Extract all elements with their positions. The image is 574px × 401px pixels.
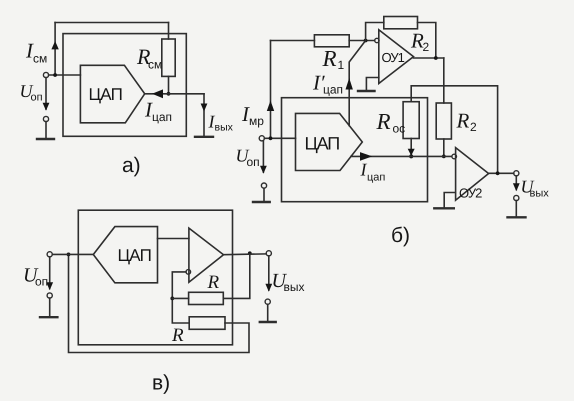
terminal Uоп B: [259, 136, 264, 141]
wire Roc bottom lead: [410, 139, 412, 157]
svg-text:см: см: [148, 58, 162, 72]
wire Uоп down V: [49, 257, 51, 289]
arrow Iмр up: [267, 101, 274, 112]
wire R1 to opamp: [349, 40, 375, 42]
ground Uоп V: [40, 316, 57, 318]
svg-text:оп: оп: [247, 155, 260, 169]
input circle OU1: [375, 38, 379, 42]
svg-text:R: R: [171, 325, 184, 346]
op-amp OU1: [379, 30, 414, 84]
wire Uвых down B: [515, 176, 517, 190]
terminal circle lower V: [47, 293, 52, 298]
wire dac to opamp V: [158, 238, 189, 240]
terminal Uоп A: [43, 72, 48, 77]
ground A: [37, 138, 54, 140]
svg-text:R: R: [207, 272, 220, 293]
resistor R2 top: [384, 17, 418, 29]
svg-text:ЦАП: ЦАП: [118, 246, 152, 265]
wire to ground A: [45, 122, 47, 139]
arrow Iсм up: [51, 41, 58, 49]
junction v2: [248, 251, 252, 255]
ground Iвых: [195, 136, 213, 138]
wire R top to output: [223, 253, 250, 298]
svg-text:1: 1: [338, 58, 345, 72]
terminal Uоп V: [47, 252, 52, 257]
DAC package box V: [78, 210, 232, 345]
DAC package box A: [63, 34, 186, 137]
arrow Uоп down V: [46, 282, 53, 290]
DAC symbol ЦАП B: [296, 113, 363, 170]
ground OU1: [358, 90, 375, 92]
wire top b: [271, 40, 315, 42]
svg-text:ЦАП: ЦАП: [305, 134, 340, 154]
wire output V: [224, 253, 267, 256]
arrow Iвых down: [201, 104, 208, 112]
op-amp OU2: [456, 148, 489, 201]
wire I'цап vertical: [349, 41, 365, 126]
svg-text:в): в): [152, 372, 170, 395]
wire to ground Uвых B: [515, 201, 517, 218]
svg-text:цап: цап: [323, 83, 343, 97]
arrow Roc current down: [408, 149, 415, 156]
wire Iцап output B: [351, 155, 451, 157]
terminal circle lower B: [261, 183, 266, 188]
svg-text:вых: вых: [284, 280, 305, 294]
resistor Rсм: [162, 39, 175, 76]
svg-text:оп: оп: [31, 92, 43, 104]
terminal circle lower Uвых B: [514, 195, 519, 200]
terminal circle lower A: [43, 116, 48, 121]
ground Uоп B: [253, 201, 270, 203]
wire Rсм bottom lead: [168, 76, 170, 93]
wire R top left lead: [172, 297, 188, 299]
op-amp V: [189, 228, 224, 282]
wire down to R2v: [443, 58, 445, 103]
terminal circle lower Uвых V: [265, 299, 270, 304]
arrow I'цап up: [346, 78, 353, 90]
DAC symbol ЦАП V: [93, 227, 157, 283]
arrow Uоп down A: [43, 103, 50, 111]
wire to ground B: [263, 188, 265, 202]
input circle opamp V: [186, 270, 191, 275]
svg-text:2: 2: [423, 40, 430, 54]
svg-text:ОУ1: ОУ1: [382, 50, 405, 65]
svg-text:б): б): [391, 224, 410, 247]
terminal Uвых V: [266, 251, 271, 256]
junction b2: [434, 56, 438, 60]
wire Rсм top lead: [168, 23, 170, 40]
svg-text:R: R: [376, 109, 391, 134]
arrow Uвых down B: [513, 183, 520, 191]
svg-text:ос: ос: [393, 122, 406, 136]
svg-text:вых: вых: [215, 122, 234, 134]
wire Uвых down V: [268, 256, 270, 290]
junction b4: [409, 154, 413, 158]
svg-text:ЦАП: ЦАП: [89, 85, 123, 104]
junction A1: [53, 73, 57, 77]
arrow Uоп down B: [260, 166, 267, 174]
svg-text:оп: оп: [35, 275, 48, 289]
svg-text:цап: цап: [152, 110, 172, 124]
svg-text:цап: цап: [367, 172, 385, 184]
wire R2 to output: [418, 23, 436, 59]
svg-text:мр: мр: [249, 114, 264, 128]
arrow Uвых down V: [265, 284, 272, 292]
wire Uоп down A: [45, 78, 47, 109]
resistor R1: [314, 35, 349, 47]
resistor R2 vertical: [436, 103, 451, 139]
wire R bottom loop: [69, 254, 250, 352]
DAC symbol ЦАП A: [80, 65, 144, 123]
ground Uвых V: [260, 321, 276, 323]
svg-text:R: R: [456, 109, 470, 133]
wire Iмр vertical: [270, 41, 272, 139]
wire Roc top to OU2 output: [411, 86, 497, 174]
wire Iвых down: [203, 94, 205, 137]
wire input V: [52, 253, 93, 255]
wire to ground Uвых V: [267, 304, 269, 322]
ground Uвых B: [508, 216, 526, 218]
terminal Uвых B: [514, 171, 519, 176]
junction v3: [67, 253, 71, 257]
junction b1: [364, 39, 368, 43]
svg-text:2: 2: [470, 120, 477, 134]
svg-text:а): а): [122, 154, 141, 177]
arrow Iцап left: [152, 89, 163, 98]
wire Iсм vertical: [54, 23, 56, 76]
resistor R bottom: [189, 317, 225, 330]
wire R2v bottom lead: [443, 139, 445, 156]
wire feedback up: [366, 23, 384, 41]
ground OU2 wire: [444, 193, 455, 209]
resistor R top: [189, 292, 224, 304]
junction b3: [442, 155, 446, 159]
wire top A: [55, 22, 168, 24]
svg-text:см: см: [33, 52, 47, 66]
svg-text:ОУ2: ОУ2: [459, 186, 482, 201]
wire Uоп down B: [262, 141, 264, 172]
ground OU1 wire: [366, 78, 378, 92]
svg-text:R: R: [322, 46, 337, 71]
wire input B: [264, 137, 295, 139]
wire feedback left V: [172, 272, 189, 323]
resistor Roc: [403, 102, 419, 139]
wire OU2 output: [488, 172, 514, 174]
junction A2: [167, 92, 171, 96]
junction v1: [170, 297, 174, 301]
wire output A: [145, 93, 204, 95]
wire to ground V: [49, 298, 51, 317]
DAC package box B: [282, 98, 428, 202]
svg-text:вых: вых: [530, 188, 550, 200]
junction b6: [496, 171, 500, 175]
wire OU1 output: [414, 57, 444, 59]
junction b5: [269, 136, 273, 140]
arrow Iцап right: [360, 152, 372, 161]
ground OU2: [434, 207, 454, 209]
input circle OU2: [452, 154, 457, 159]
wire input A: [49, 74, 81, 76]
